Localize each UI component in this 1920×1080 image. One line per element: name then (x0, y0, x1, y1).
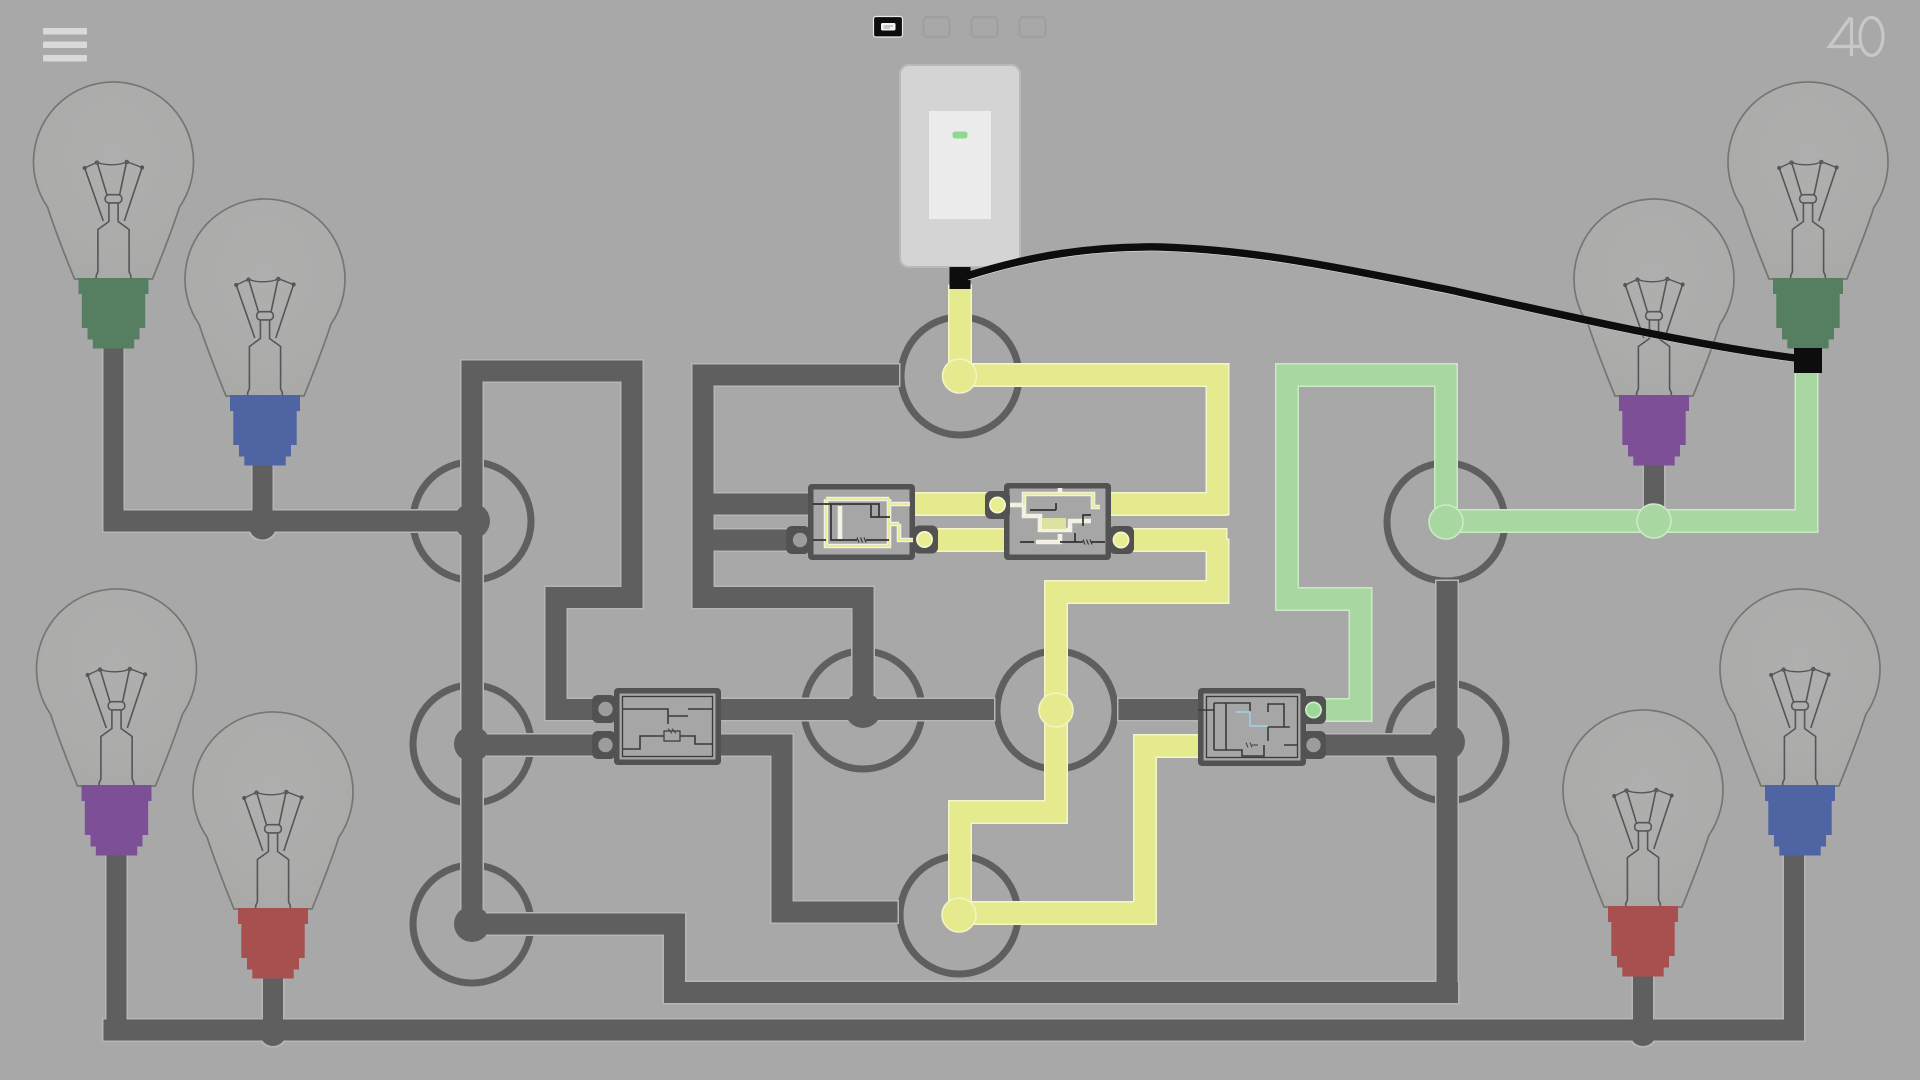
wire: L1 up (462, 361, 483, 522)
node ring left upper (413, 462, 531, 580)
bulb TL outer (green base) (34, 82, 194, 349)
yellow wire: vertical x1056 through M2 (1046, 582, 1067, 823)
wire: jog vertical x556 (546, 587, 567, 720)
junction dot red bulb right (1630, 1020, 1656, 1046)
node dot yellow M2 (1039, 693, 1073, 727)
yellow wire: vertical x1215.5 (1207, 365, 1228, 515)
node dot dark L2 (454, 726, 490, 762)
pin chip U4 lower-right (gray) (1302, 731, 1326, 759)
junction dot red bulb left (260, 1020, 286, 1046)
cable end connector (black) (1794, 348, 1822, 373)
pin chip U1 left (gray) (786, 526, 810, 554)
yellow wire: chip1 to chip2 top band (915, 494, 1004, 515)
wire: down x782 (772, 735, 793, 923)
wire: L1 down to L2 and to L3 (462, 521, 483, 924)
wire: up to right lower circle x1447 (1437, 742, 1458, 1003)
node dot dark M1 (845, 692, 881, 728)
wire: TR inner purple bulb stub (1644, 455, 1664, 515)
yellow wire: horizontal y812 (950, 802, 1067, 823)
wire: down x863 into circle M1 (853, 587, 874, 710)
level icon 1 (active, black) (874, 17, 903, 38)
wire: BL inner bulb stub (263, 968, 283, 1030)
node dot green purple-bulb junction (1637, 504, 1671, 538)
light switch plate (900, 65, 1020, 267)
wire: right y912 to M3 ring (772, 902, 898, 923)
green wire: vertical x1360.5 (1350, 599, 1371, 721)
node ring below switch (901, 317, 1019, 435)
relay chip U2 (lit) (985, 483, 1134, 560)
wire: bottom long horizontal y1030 (104, 1020, 1805, 1041)
wire: BR inner red bulb stub (1633, 966, 1653, 1030)
node dot dark L1 (454, 503, 490, 539)
bulb BR outer (blue base) (1720, 589, 1880, 856)
switch output connector (black) (950, 267, 971, 289)
wire: into chip3 upper-left pin (546, 699, 596, 720)
yellow wire: vertical x960 into M3 (950, 802, 971, 916)
node ring bottom middle (yellow) (900, 856, 1018, 974)
wire: M2 ring to chip4 left (1119, 699, 1199, 720)
wire: loop vertical x634 (622, 361, 643, 609)
node ring left lower (413, 865, 531, 983)
node dot yellow M3 (942, 898, 976, 932)
node dot yellow below switch (943, 359, 977, 393)
green wire: vertical x1446 into circle (1436, 365, 1457, 523)
green wire: horizontal y599 (1277, 589, 1372, 610)
yellow wire: chip1 right pin to chip2 (925, 530, 1010, 551)
wire: chip4 lower pin to circle right-lower (1324, 735, 1447, 756)
wire: switch circle left stub y375 (693, 365, 900, 386)
yellow wire: chip2 right pin going right (1121, 530, 1226, 551)
node dot dark L3 (454, 906, 490, 942)
level icon 3 (inactive outline) (972, 17, 998, 37)
bulb TR inner (purple base) (1574, 199, 1734, 466)
yellow wire: vertical x1145 up (1135, 736, 1156, 924)
node ring left middle (413, 685, 531, 803)
relay chip U3 (unlit) (592, 688, 721, 765)
pin chip U3 lower-left (gray) (592, 731, 616, 759)
yellow wire: horizontal y913 from M3 (959, 903, 1145, 924)
node ring center-right (yellow) (997, 651, 1115, 769)
relay chip U4 (partly lit) (1198, 688, 1326, 766)
wire: bulb TL inner stub (253, 455, 273, 521)
wire: top loop horizontal y371 (462, 361, 643, 382)
wire: corner down x674.5 (664, 914, 685, 1004)
level number 40 (1830, 18, 1884, 57)
bulb TL inner (blue base) (185, 199, 345, 466)
wire: between right circles x1447 (1437, 581, 1458, 742)
green wire: horizontal y521 (1446, 511, 1817, 532)
bulb TR outer (green base) (1728, 82, 1888, 349)
wire: branch to chip1 left pin y540 (693, 530, 790, 551)
node ring right upper (green) (1387, 463, 1505, 581)
wire: long bottom-middle horizontal y992.5 (664, 982, 1458, 1003)
wire: top-left bulbs horizontal run (104, 511, 473, 532)
yellow wire: horizontal y504 into chip2 right top (1110, 494, 1226, 515)
wire: chip3 lower-right short (721, 735, 793, 756)
switch rocker (929, 111, 991, 219)
junction dot TL inner bulb (249, 513, 276, 540)
wire: L3 right to corner (472, 914, 685, 935)
pin chip U4 upper-right (green, lit) (1302, 696, 1326, 724)
node dot green right-upper (1429, 505, 1463, 539)
wire: bulb TL outer stub (104, 345, 124, 521)
wire: BL outer bulb stub (107, 850, 127, 1030)
switch green indicator (953, 132, 968, 139)
wire: jog horizontal y597.5 (546, 587, 643, 608)
green wire: vertical x1806.5 to connector (1796, 370, 1817, 532)
yellow wire: horizontal y375 (960, 365, 1227, 386)
level icon 4 (inactive outline) (1020, 17, 1046, 37)
yellow wire: vertical x1215.5 down (1207, 540, 1228, 603)
level icon 2 (inactive outline) (924, 17, 950, 37)
black cable (967, 247, 1803, 359)
cable highlight (968, 250, 1804, 362)
wire: BR outer blue bulb stub (1784, 847, 1804, 1030)
pin chip U2 right (yellow, lit) (1109, 526, 1134, 554)
bulb BR inner (red base) (1563, 710, 1723, 977)
green wire: horizontal y375 (1277, 365, 1448, 386)
wire: vertical x703 (693, 365, 714, 609)
wire: TR outer green bulb stub (1798, 344, 1818, 354)
green wire: from chip4 green pin (1313, 700, 1371, 721)
yellow wire: switch connector down to circle (950, 286, 971, 376)
relay chip U1 (lit) (786, 484, 938, 560)
yellow wire: horizontal y592 (1046, 582, 1227, 603)
bulb BL outer (purple base) (37, 589, 197, 856)
wire: chip3 upper-right to M2 ring (721, 699, 994, 720)
hamburger menu icon (43, 28, 87, 62)
wire: branch into chip1 upper-left y504 (693, 494, 813, 515)
green wire: vertical x1287 (1277, 365, 1298, 610)
yellow wire: horizontal y746 into chip4 (1135, 736, 1199, 757)
pin chip U3 upper-left (gray) (592, 695, 616, 723)
pin chip U1 right (yellow, lit) (913, 526, 938, 554)
wire: L2 right to chip3 lower-left pin (472, 735, 594, 756)
pin chip U2 top-left (yellow, lit) (985, 491, 1010, 519)
node dot dark right-lower (1429, 724, 1465, 760)
bulb BL inner (red base) (193, 712, 353, 979)
node ring center (dark dot) (804, 651, 922, 769)
node ring right lower (1388, 683, 1506, 801)
wire: horizontal y597.5 to x863 (693, 587, 874, 608)
